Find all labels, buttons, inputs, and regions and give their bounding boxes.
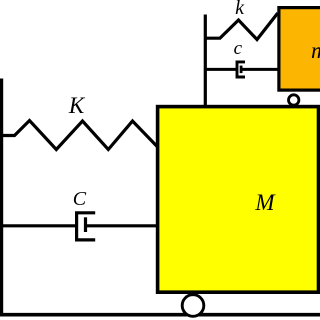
svg-text:k: k [235, 0, 245, 19]
svg-text:C: C [73, 188, 87, 210]
mass M [158, 107, 319, 293]
spring K [2, 121, 158, 150]
spring k [205, 13, 277, 40]
damper c rod right [241, 68, 278, 71]
damper c rod left [205, 68, 237, 71]
wheel under m [289, 95, 299, 105]
damper C cylinder [77, 213, 96, 240]
svg-text:K: K [68, 93, 86, 118]
svg-text:M: M [254, 190, 276, 215]
damper c cylinder [237, 62, 245, 77]
post on M [204, 15, 207, 108]
damper C rod left [2, 224, 77, 227]
damper C rod right [86, 224, 158, 227]
left wall [0, 79, 3, 317]
svg-text:c: c [234, 38, 243, 59]
wheel under M [182, 295, 204, 317]
damper C piston [84, 217, 87, 232]
ground [0, 313, 320, 317]
svg-text:m: m [311, 38, 320, 63]
mass m [279, 8, 320, 91]
damper c piston [240, 66, 243, 74]
